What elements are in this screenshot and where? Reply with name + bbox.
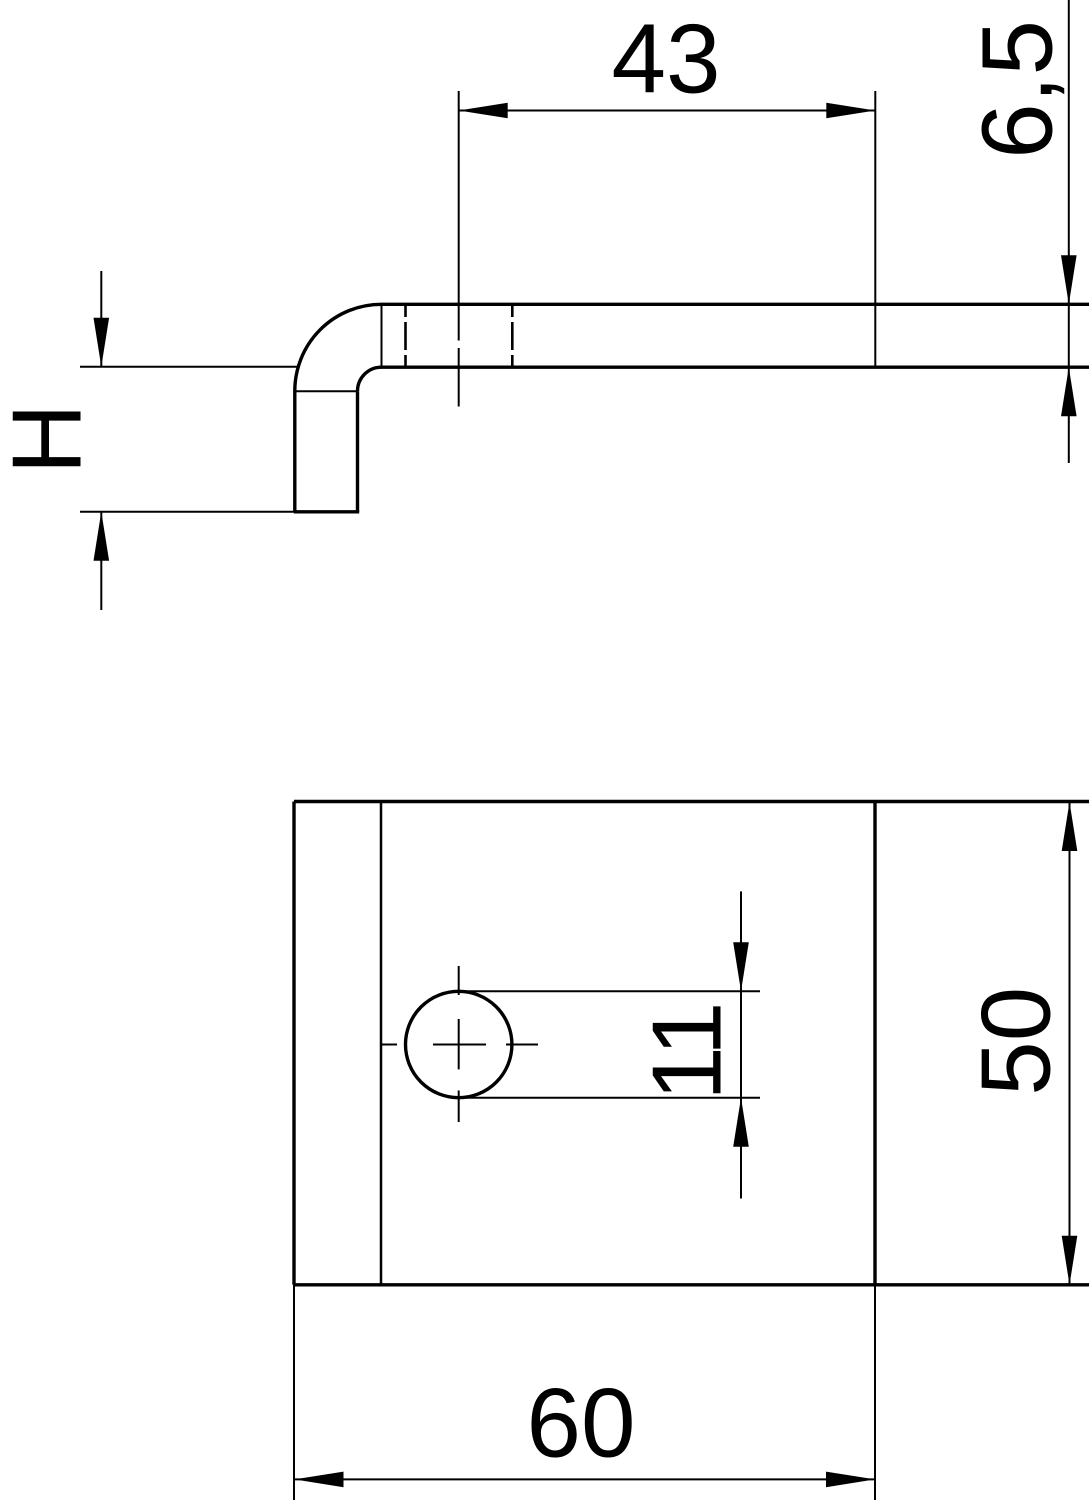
60 arrowhead right [826, 1472, 875, 1488]
43 dimension line [459, 110, 876, 112]
leg bottom edge [294, 510, 359, 513]
svg-text:6,5: 6,5 [962, 20, 1074, 159]
bend outer arc [295, 304, 382, 391]
11 arrowhead top (pointing down) [733, 942, 749, 991]
outline left edge [292, 802, 295, 1285]
11 arrowhead bottom (pointing up) [733, 1098, 749, 1147]
hole hidden edge right (dashed) [511, 305, 514, 367]
6,5 dimension line [1068, 0, 1070, 463]
plate bottom edge [382, 366, 1089, 369]
50 dimension line [1069, 802, 1071, 1285]
60 left extension line [293, 1285, 295, 1500]
H bottom extension line [80, 511, 294, 513]
product edge at 60 [873, 802, 876, 1285]
60 right extension line [874, 1285, 876, 1500]
svg-text:50: 50 [961, 987, 1071, 1096]
50 arrowhead bottom (pointing down) [1062, 1236, 1078, 1285]
60 dimension line [295, 1478, 876, 1480]
svg-text:11: 11 [632, 1004, 742, 1101]
11 bottom extension line [459, 1097, 760, 1099]
6,5 arrowhead bottom (pointing up) [1061, 367, 1077, 416]
H arrowhead top (pointing down) [94, 318, 110, 367]
hole hidden edge left (dashed) [404, 305, 407, 367]
11 dimension line [740, 891, 742, 1198]
outline top edge [294, 800, 1089, 803]
hole centre line / 43 left extension line [458, 91, 460, 407]
plate top edge [382, 303, 1089, 306]
leg outer edge [293, 391, 296, 512]
H top extension line [80, 366, 298, 368]
H arrowhead bottom (pointing up) [94, 512, 110, 561]
50 arrowhead top (pointing up) [1062, 802, 1078, 851]
bend inner arc [358, 367, 382, 391]
bend tangent line (vertical, across plate) [381, 305, 383, 367]
6,5 arrowhead top (pointing down) [1061, 255, 1077, 304]
hole centre line vertical [458, 966, 460, 1122]
svg-text:43: 43 [611, 4, 720, 114]
hole centre line horizontal [380, 1044, 538, 1046]
60 arrowhead left [295, 1472, 344, 1488]
bend line [380, 802, 383, 1285]
bend tangent line (horizontal, across leg) [295, 390, 358, 392]
leg inner edge [356, 391, 359, 512]
outline bottom edge [294, 1283, 1089, 1286]
H dimension line upper part [100, 271, 102, 367]
hole circle [406, 991, 512, 1097]
H dimension line lower part [100, 512, 102, 610]
svg-text:60: 60 [526, 1368, 635, 1478]
43 arrowhead right [826, 103, 875, 119]
43 right extension line [874, 91, 876, 367]
11 top extension line [459, 990, 760, 992]
svg-text:H: H [0, 403, 102, 474]
43 arrowhead left [459, 103, 508, 119]
